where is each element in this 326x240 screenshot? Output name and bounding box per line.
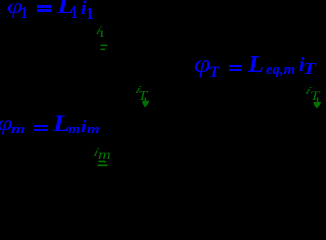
F3 equals sign (34, 125, 49, 128)
F2 subscript T after phi (209, 65, 219, 81)
current label i1 letter i (95, 26, 103, 38)
flux equation F1 phi symbol (7, 0, 23, 18)
current label iT mid subscript T (138, 89, 147, 102)
flux equation F2 phi symbol (194, 52, 211, 77)
F3 subscript m after i (87, 123, 100, 136)
F3 subscript m after L (68, 123, 80, 136)
F1 subscript 1 after L (71, 4, 77, 22)
current arrow for i1 (right) (100, 44, 110, 51)
F1 equals sign (37, 5, 51, 8)
current arrow for iT mid (down) (140, 97, 150, 109)
F1 inductance L (57, 0, 74, 18)
F1 subscript 1 after phi (21, 5, 27, 22)
F3 inductance L (53, 113, 70, 136)
F3 current i (81, 118, 86, 135)
F2 subscript T after i (303, 61, 316, 78)
F2 inductance L (248, 53, 264, 78)
current label im letter i (92, 146, 100, 158)
current label i1 subscript 1 (99, 30, 104, 40)
current arrow for im (right) (97, 160, 109, 168)
F1 subscript 1 after i (86, 5, 93, 22)
F2 subscript eq,m (266, 63, 295, 78)
current label iT right subscript T (310, 89, 319, 102)
F2 equals sign (229, 65, 241, 67)
current arrow for iT right (down) (312, 97, 323, 110)
F1 current i (81, 0, 87, 18)
flux equation F3 phi symbol (0, 113, 13, 134)
current label iT mid letter i (133, 86, 142, 97)
F2 current i (299, 55, 304, 75)
current label iT right letter i (304, 87, 313, 98)
F3 subscript m after phi (11, 123, 25, 136)
current label im subscript m (98, 148, 111, 161)
